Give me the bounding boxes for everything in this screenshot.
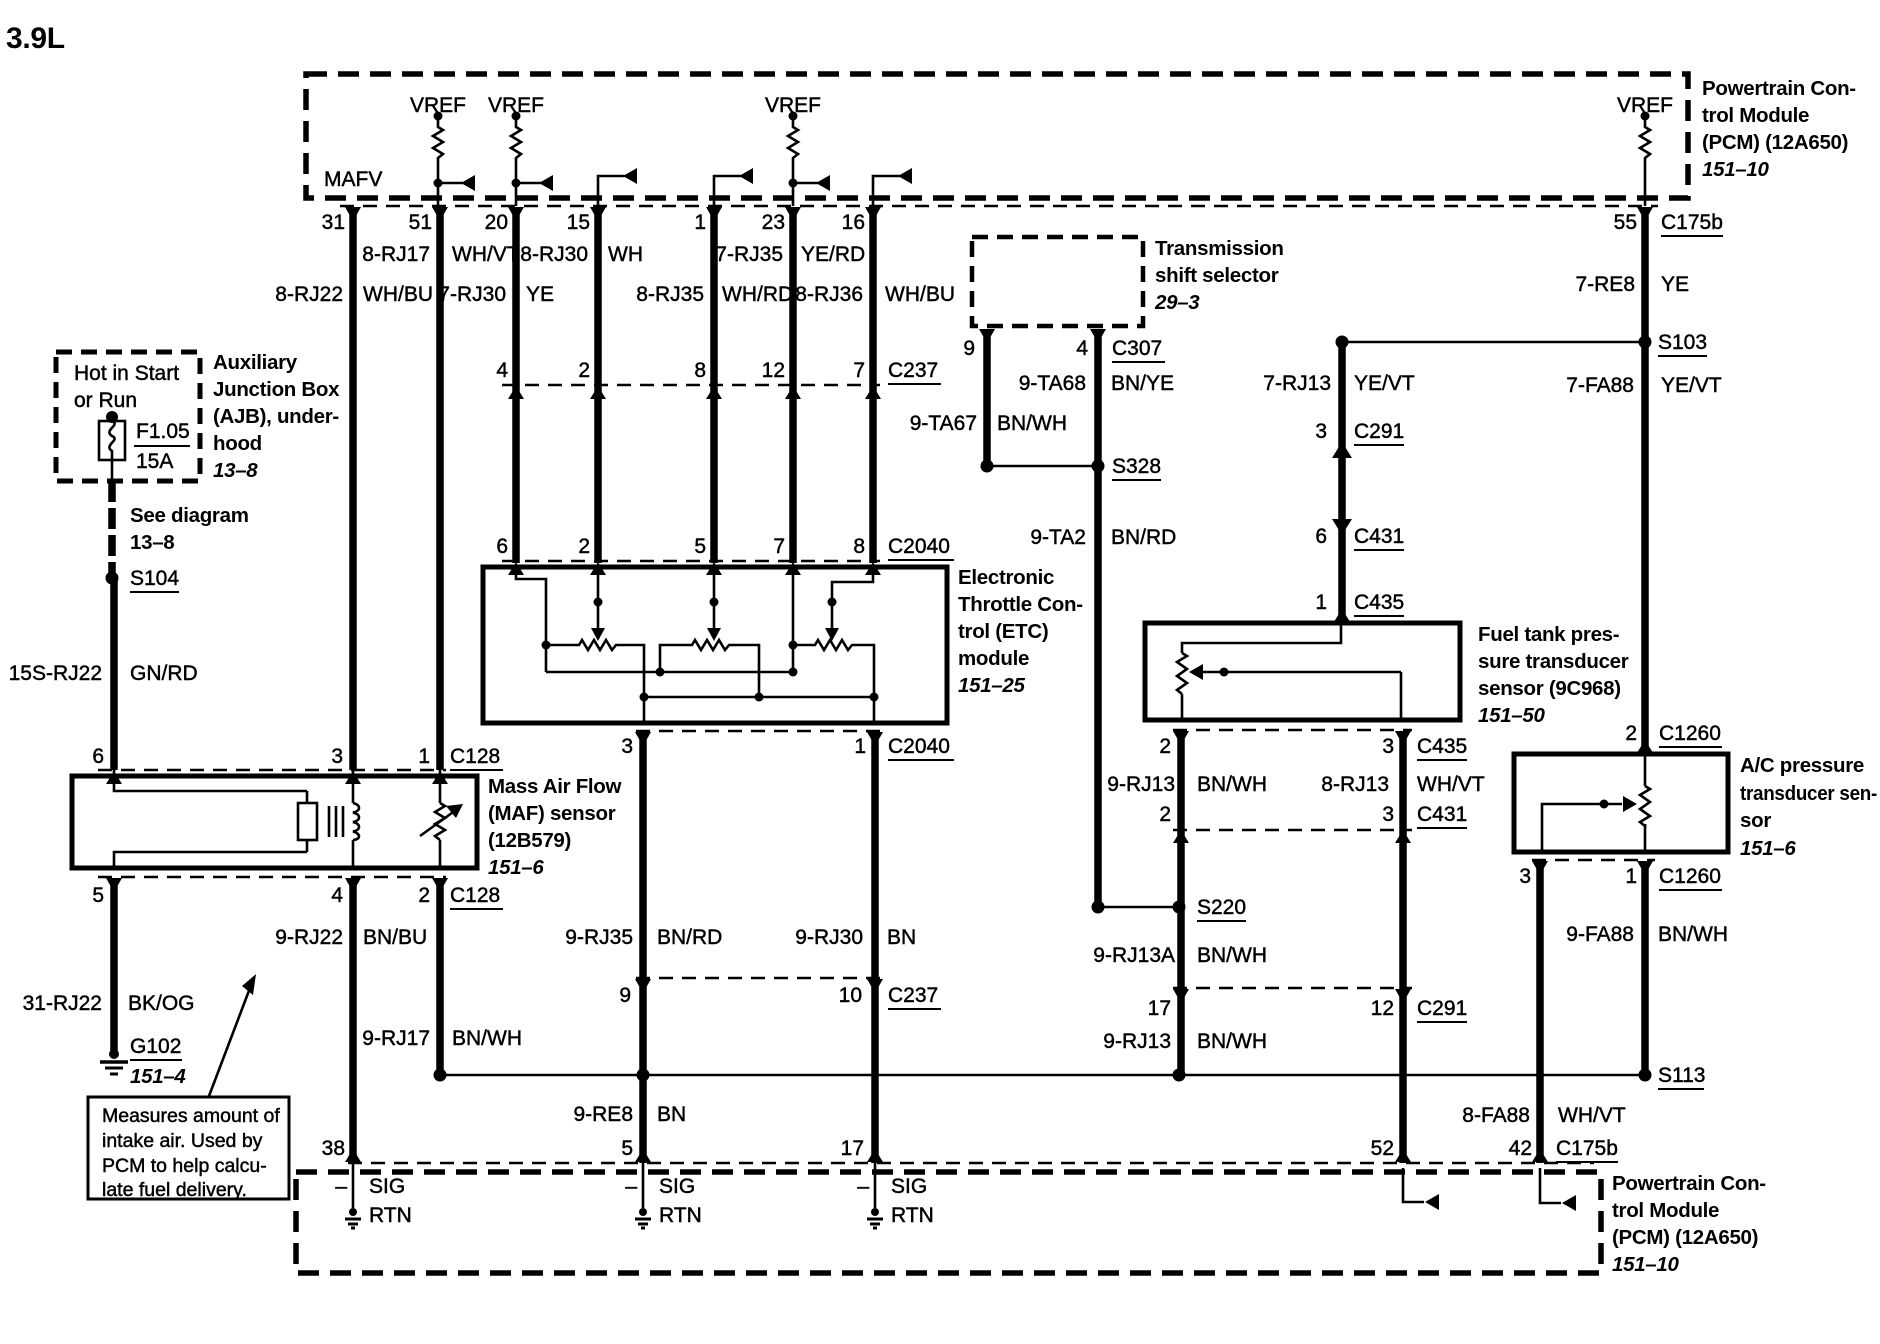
connector C2040 dashed line (lower) <box>636 730 884 733</box>
svg-text:WH/BU: WH/BU <box>885 283 955 306</box>
splice bus wire to S113 <box>434 1069 1646 1082</box>
svg-text:1: 1 <box>1625 865 1637 888</box>
svg-text:YE: YE <box>526 283 554 306</box>
svg-text:9-TA67: 9-TA67 <box>910 412 977 435</box>
C237 upper pin numbers <box>496 359 865 382</box>
connector label C431 <box>1417 803 1467 828</box>
C128 upper pin numbers <box>92 745 430 768</box>
svg-text:3: 3 <box>1519 865 1531 888</box>
svg-text:C1260: C1260 <box>1659 865 1721 888</box>
svg-text:1: 1 <box>694 211 706 234</box>
svg-text:C2040: C2040 <box>888 535 950 558</box>
svg-text:–: – <box>625 1175 637 1198</box>
connector label C128 lower <box>450 884 503 909</box>
connector label C175b <box>1661 211 1723 236</box>
wire 9-TA67 BN/WH (shift selector 9 to S328) <box>983 330 991 466</box>
svg-text:Auxiliary: Auxiliary <box>213 351 298 374</box>
wire label 7-FA88 YE/VT <box>1566 374 1722 397</box>
connector arrowheads down at C2040 lower <box>635 732 883 746</box>
svg-text:Powertrain Con-: Powertrain Con- <box>1612 1172 1766 1195</box>
svg-text:BN/WH: BN/WH <box>1197 944 1267 967</box>
potentiometer R2 (TP2) <box>660 640 759 697</box>
A/C sensor name text <box>1740 754 1877 860</box>
svg-text:7-RJ35: 7-RJ35 <box>715 243 783 266</box>
svg-text:7-FA88: 7-FA88 <box>1566 374 1634 397</box>
PCM internal arrow on pin 16 wire <box>873 168 912 206</box>
svg-text:10: 10 <box>839 984 862 1007</box>
wire label 9-TA2 BN/RD <box>1030 526 1176 549</box>
connector arrowhead down at wire 55 <box>1637 207 1653 221</box>
svg-text:BN: BN <box>887 926 916 949</box>
svg-text:15A: 15A <box>136 450 173 473</box>
svg-text:RTN: RTN <box>891 1204 934 1227</box>
svg-text:BN/YE: BN/YE <box>1111 372 1174 395</box>
svg-text:151–25: 151–25 <box>958 674 1026 697</box>
wire 8-RJ22 WH/BU (PCM 31 to MAF 3) <box>349 208 357 770</box>
wire 7-FA88 YE/VT (S103 to A/C 2) <box>1641 342 1649 754</box>
connector arrowheads down at C435 <box>1173 731 1411 745</box>
VREF pull-up resistor R-vref2 <box>511 112 521 207</box>
connector label C237 lower <box>888 984 941 1009</box>
svg-text:PCM to help calcu-: PCM to help calcu- <box>102 1155 267 1177</box>
wire label 9-TA67 BN/WH <box>910 412 1067 435</box>
svg-text:MAFV: MAFV <box>324 168 382 191</box>
svg-text:16: 16 <box>842 211 865 234</box>
connector arrowhead down at wire 23 <box>785 207 801 221</box>
svg-text:WH/BU: WH/BU <box>363 283 433 306</box>
svg-text:S103: S103 <box>1658 331 1707 354</box>
svg-text:3: 3 <box>1382 803 1394 826</box>
svg-text:4: 4 <box>496 359 508 382</box>
connector C291 dashed line <box>1173 987 1412 990</box>
MAF sensor name text <box>488 775 622 879</box>
svg-text:151–4: 151–4 <box>130 1065 186 1088</box>
svg-text:(MAF) sensor: (MAF) sensor <box>488 802 616 825</box>
fuel sensor internal wire to pin 2 <box>1181 694 1184 720</box>
svg-text:shift selector: shift selector <box>1155 264 1279 287</box>
svg-text:9: 9 <box>619 984 631 1007</box>
C237 lower pin numbers <box>619 984 862 1007</box>
AJB caption Hot in Start or Run <box>74 362 179 412</box>
C435 pin numbers <box>1159 735 1394 758</box>
svg-text:SIG: SIG <box>891 1175 927 1198</box>
svg-text:C237: C237 <box>888 984 938 1007</box>
ETC internal wire from pin 7 <box>789 567 798 672</box>
connector C175b dashed line (top) <box>340 205 1658 208</box>
svg-text:8-RJ35: 8-RJ35 <box>636 283 704 306</box>
svg-text:13–8: 13–8 <box>130 531 174 554</box>
wire 9-RJ35 BN/RD (ETC 3 to C237 9) <box>639 733 647 978</box>
svg-text:C431: C431 <box>1417 803 1467 826</box>
svg-text:C1260: C1260 <box>1659 722 1721 745</box>
svg-text:31: 31 <box>322 211 345 234</box>
connector arrowhead down at wire 51 <box>432 207 448 221</box>
fuel sensor internal wire from pin 1 <box>1182 623 1341 653</box>
connector C128 dashed line (lower) <box>98 876 446 879</box>
svg-text:3.9L: 3.9L <box>6 22 65 55</box>
fuel tank sensor name text <box>1478 623 1629 727</box>
A/C sensor wiper arrow <box>1542 796 1637 852</box>
Transmission shift selector box (dashed) <box>972 237 1143 326</box>
svg-text:C435: C435 <box>1417 735 1467 758</box>
wire 9-RJ13 BN/WH (C291 17 to S113 bus) <box>1177 988 1185 1075</box>
svg-text:8: 8 <box>694 359 706 382</box>
PCM internal arrow pin 42 <box>1540 1168 1576 1211</box>
svg-text:3: 3 <box>1315 420 1327 443</box>
wire 9-RE8 BN (C237 9 to PCM 5) <box>639 978 647 1163</box>
connector C237 dashed line (upper) <box>502 384 880 387</box>
svg-text:6: 6 <box>1315 525 1327 548</box>
connector arrowheads up at C2040 upper <box>508 562 881 575</box>
svg-text:9-FA88: 9-FA88 <box>1566 923 1634 946</box>
connector arrowhead down at wire 20 <box>508 207 524 221</box>
wire labels 9-RJ35 BN/RD and 9-RJ30 BN <box>565 926 916 949</box>
svg-text:7: 7 <box>773 535 785 558</box>
svg-text:WH/RD: WH/RD <box>722 283 793 306</box>
svg-text:BN/WH: BN/WH <box>1658 923 1728 946</box>
svg-text:7-RJ30: 7-RJ30 <box>438 283 506 306</box>
svg-text:trol Module: trol Module <box>1612 1199 1719 1222</box>
svg-text:Fuel tank pres-: Fuel tank pres- <box>1478 623 1619 646</box>
wire label 9-RJ22 BN/BU <box>275 926 427 949</box>
C307 pin numbers <box>963 337 1088 360</box>
wire 8-RJ17 WH/VT (PCM 51 to MAF 1) <box>436 208 444 770</box>
svg-text:31-RJ22: 31-RJ22 <box>23 992 102 1015</box>
svg-text:C435: C435 <box>1354 591 1404 614</box>
svg-text:8-FA88: 8-FA88 <box>1462 1104 1530 1127</box>
C2040 lower pin numbers <box>621 735 866 758</box>
wire 7-RJ35 WH/RD (PCM 23 to ETC 7) <box>789 208 797 563</box>
connector arrowheads up at C128 upper <box>106 771 448 784</box>
connector arrowheads down at C291 <box>1173 989 1411 1003</box>
svg-text:5: 5 <box>621 1137 633 1160</box>
C128 lower pin numbers <box>92 884 430 907</box>
fuse label F1.05 15A <box>134 420 190 473</box>
svg-text:BN/WH: BN/WH <box>1197 1030 1267 1053</box>
ETC internal wire from pin 5 (R2 wiper) <box>707 567 721 641</box>
connector label C128 upper <box>450 745 503 770</box>
wire label 31-RJ22 BK/OG <box>23 992 195 1015</box>
svg-text:151–10: 151–10 <box>1702 158 1770 181</box>
connector C1260 dashed line <box>1532 859 1655 862</box>
svg-text:BN/WH: BN/WH <box>1197 773 1267 796</box>
svg-text:23: 23 <box>762 211 785 234</box>
connector label C2040 upper <box>888 535 954 560</box>
svg-text:8-RJ22: 8-RJ22 <box>275 283 343 306</box>
pin numbers on C175b row <box>322 211 1637 234</box>
svg-text:Mass Air Flow: Mass Air Flow <box>488 775 622 798</box>
Auxiliary Junction Box (dashed) <box>56 352 200 481</box>
svg-text:8-RJ36: 8-RJ36 <box>795 283 863 306</box>
AJB name text <box>213 351 340 482</box>
svg-text:BN/WH: BN/WH <box>452 1027 522 1050</box>
svg-text:YE: YE <box>1661 273 1689 296</box>
svg-text:151–6: 151–6 <box>488 856 544 879</box>
wire 7-RJ13 YE/VT (S103 to fuel sensor 1) <box>1338 342 1346 618</box>
svg-text:29–3: 29–3 <box>1154 291 1200 314</box>
svg-text:C307: C307 <box>1112 337 1162 360</box>
svg-text:BN/RD: BN/RD <box>657 926 722 949</box>
PCM bottom pin numbers <box>322 1137 1532 1160</box>
svg-text:6: 6 <box>92 745 104 768</box>
svg-text:52: 52 <box>1371 1137 1394 1160</box>
connector label C435 <box>1417 735 1467 760</box>
wire 9-RJ13 BN/WH (fuel 2 to S220) <box>1177 733 1185 907</box>
PCM SIG RTN pin 38 <box>335 1163 411 1228</box>
svg-text:2: 2 <box>1159 803 1171 826</box>
svg-text:9-RJ17: 9-RJ17 <box>362 1027 430 1050</box>
wire 8-RJ30 WH (PCM 15 to ETC 2) <box>594 208 602 563</box>
connector C128 dashed line (upper) <box>98 769 446 772</box>
splice S113 <box>1639 1064 1706 1089</box>
wire label 9-FA88 BN/WH <box>1566 923 1728 946</box>
svg-text:8-RJ17: 8-RJ17 <box>362 243 430 266</box>
svg-text:7: 7 <box>853 359 865 382</box>
svg-text:8: 8 <box>853 535 865 558</box>
svg-text:3: 3 <box>621 735 633 758</box>
svg-text:C128: C128 <box>450 745 500 768</box>
wire label 8-FA88 WH/VT <box>1462 1104 1626 1127</box>
ETC internal wire from pin 2 (R1 wiper) <box>591 567 605 641</box>
svg-text:transducer sen-: transducer sen- <box>1740 782 1877 805</box>
svg-text:2: 2 <box>418 884 430 907</box>
connector label C307 <box>1112 337 1165 362</box>
svg-text:BN: BN <box>657 1103 686 1126</box>
C1260 pin numbers <box>1519 865 1637 888</box>
A/C pressure transducer sensor box <box>1514 754 1728 852</box>
wire 7-RJ30 YE (PCM 20 to ETC 6) <box>512 208 520 563</box>
wire 8-RJ13 WH/VT (fuel 3 to C291 12) <box>1399 733 1407 988</box>
connector C431 dashed line <box>1173 829 1412 832</box>
svg-text:9-TA68: 9-TA68 <box>1019 372 1086 395</box>
svg-text:Electronic: Electronic <box>958 566 1054 589</box>
svg-text:sensor (9C968): sensor (9C968) <box>1478 677 1621 700</box>
svg-text:Hot in Start: Hot in Start <box>74 362 179 385</box>
svg-text:sor: sor <box>1740 809 1771 832</box>
Powertrain Control Module top box (dashed) <box>306 74 1688 198</box>
svg-text:C291: C291 <box>1417 997 1467 1020</box>
PCM internal arrow on pin 1 wire <box>714 168 753 206</box>
svg-text:7-RE8: 7-RE8 <box>1575 273 1635 296</box>
svg-text:or Run: or Run <box>74 389 137 412</box>
wire BN (C237 10 to PCM 17) <box>871 978 879 1163</box>
fuel sensor wiper arrow <box>1189 664 1401 720</box>
MAF internal hot-wire element loop <box>114 770 298 868</box>
svg-text:15: 15 <box>567 211 590 234</box>
svg-text:2: 2 <box>1159 735 1171 758</box>
wire label 15S-RJ22 GN/RD <box>9 662 198 685</box>
wire label 9-TA68 BN/YE <box>1019 372 1174 395</box>
svg-text:Transmission: Transmission <box>1155 237 1284 260</box>
wire 31-RJ22 BK/OG (MAF 5 to G102) <box>110 879 118 1052</box>
svg-text:9-RJ22: 9-RJ22 <box>275 926 343 949</box>
svg-text:S220: S220 <box>1197 896 1246 919</box>
svg-text:151–10: 151–10 <box>1612 1253 1680 1276</box>
svg-text:1: 1 <box>854 735 866 758</box>
svg-text:1: 1 <box>1315 591 1327 614</box>
svg-text:9-RE8: 9-RE8 <box>573 1103 633 1126</box>
svg-text:S104: S104 <box>130 567 179 590</box>
inline connector C435 pin 1 <box>1315 591 1404 625</box>
svg-text:C431: C431 <box>1354 525 1404 548</box>
svg-text:BN/BU: BN/BU <box>363 926 427 949</box>
svg-text:sure transducer: sure transducer <box>1478 650 1629 673</box>
svg-text:C175b: C175b <box>1556 1137 1618 1160</box>
svg-text:20: 20 <box>485 211 508 234</box>
svg-text:6: 6 <box>496 535 508 558</box>
inline connector C291 pin 3 <box>1315 420 1404 458</box>
svg-text:3: 3 <box>331 745 343 768</box>
svg-text:(PCM) (12A650): (PCM) (12A650) <box>1612 1226 1758 1249</box>
svg-text:3: 3 <box>1382 735 1394 758</box>
connector arrowheads down at C307 <box>979 329 1106 343</box>
wire 15S-RJ22 GN/RD (S104 to MAF 6) <box>110 578 118 770</box>
wire 9-RJ13A BN/WH (S220 to C291 17) <box>1177 907 1185 988</box>
A/C sensor resistor <box>1640 754 1650 852</box>
C2040 upper pin numbers <box>496 535 865 558</box>
wire 9-RJ30 BN (ETC 1 to C237 10) <box>871 733 879 978</box>
wire WH/VT (C291 12 to PCM 52) <box>1399 988 1407 1163</box>
svg-text:8-RJ30: 8-RJ30 <box>520 243 588 266</box>
svg-text:See diagram: See diagram <box>130 504 249 527</box>
svg-text:9-RJ35: 9-RJ35 <box>565 926 633 949</box>
ETC internal exit wires to pins 3 and 1 <box>644 697 874 723</box>
wire 9-RJ17 BN/WH (MAF 2 to S113 bus) <box>436 879 444 1075</box>
svg-text:SIG: SIG <box>659 1175 695 1198</box>
wire label 7-RE8 YE <box>1575 273 1689 296</box>
svg-text:S328: S328 <box>1112 455 1161 478</box>
svg-text:trol (ETC): trol (ETC) <box>958 620 1048 643</box>
svg-text:9-RJ30: 9-RJ30 <box>795 926 863 949</box>
Electronic Throttle Control module box <box>483 567 947 723</box>
svg-text:module: module <box>958 647 1029 670</box>
connector C237 dashed line (lower) <box>636 977 884 980</box>
connector arrowheads up at C237 upper <box>508 386 881 399</box>
PCM internal arrow pin 52 <box>1403 1168 1439 1210</box>
svg-text:9-RJ13: 9-RJ13 <box>1107 773 1175 796</box>
PCM internal arrow on pin 15 wire <box>598 168 637 206</box>
svg-text:5: 5 <box>694 535 706 558</box>
svg-text:9-TA2: 9-TA2 <box>1030 526 1086 549</box>
svg-text:12: 12 <box>1371 997 1394 1020</box>
Transmission shift selector name text <box>1154 237 1284 314</box>
svg-text:(12B579): (12B579) <box>488 829 571 852</box>
svg-text:WH/VT: WH/VT <box>1417 773 1485 796</box>
svg-text:15S-RJ22: 15S-RJ22 <box>9 662 102 685</box>
wire labels row 2 <box>275 283 955 306</box>
svg-text:WH/VT: WH/VT <box>452 243 520 266</box>
svg-text:51: 51 <box>409 211 432 234</box>
wire labels 9-RJ13 BN/WH and 8-RJ13 WH/VT <box>1107 773 1485 796</box>
svg-text:8-RJ13: 8-RJ13 <box>1321 773 1389 796</box>
connector arrowheads up at PCM bottom <box>345 1149 1548 1162</box>
svg-text:12: 12 <box>762 359 785 382</box>
svg-text:BK/OG: BK/OG <box>128 992 195 1015</box>
connector label C2040 lower <box>888 735 954 760</box>
svg-text:A/C pressure: A/C pressure <box>1740 754 1864 777</box>
svg-text:55: 55 <box>1614 211 1637 234</box>
svg-text:–: – <box>857 1175 869 1198</box>
connector arrowheads down at C1260 <box>1532 861 1653 875</box>
connector line at PCM bottom (thin dashed) <box>348 1162 1594 1165</box>
svg-text:C2040: C2040 <box>888 735 950 758</box>
potentiometer R1 (TP1) <box>546 640 644 697</box>
svg-text:Junction Box: Junction Box <box>213 378 340 401</box>
svg-text:17: 17 <box>1148 997 1171 1020</box>
connector arrowheads down at C128 lower <box>106 878 448 892</box>
connector arrowheads down at C237 lower <box>635 979 883 993</box>
svg-text:13–8: 13–8 <box>213 459 258 482</box>
svg-text:WH: WH <box>608 243 643 266</box>
svg-text:GN/RD: GN/RD <box>130 662 198 685</box>
ETC internal wire from pin 8 (R3 wiper) <box>825 567 873 641</box>
svg-text:YE/RD: YE/RD <box>801 243 865 266</box>
fuel sensor resistor <box>1177 653 1187 694</box>
svg-text:4: 4 <box>1076 337 1088 360</box>
svg-text:Throttle Con-: Throttle Con- <box>958 593 1083 616</box>
svg-text:–: – <box>335 1175 347 1198</box>
svg-text:7-RJ13: 7-RJ13 <box>1263 372 1331 395</box>
splice S328 <box>981 455 1162 480</box>
svg-text:S113: S113 <box>1658 1064 1706 1087</box>
wire 9-TA68 BN/YE (shift selector 4 to S328) <box>1094 330 1102 466</box>
svg-text:Powertrain Con-: Powertrain Con- <box>1702 77 1856 100</box>
wire label 9-RJ17 BN/WH <box>362 1027 522 1050</box>
splice S103 <box>1639 331 1708 356</box>
VREF pull-up resistor R-vref3 <box>788 112 798 207</box>
svg-text:C237: C237 <box>888 359 938 382</box>
PCM internal arrow on pin 23 wire <box>789 175 831 191</box>
wire label 9-RE8 BN <box>573 1103 686 1126</box>
svg-text:17: 17 <box>841 1137 864 1160</box>
PCM name text (top right) <box>1702 77 1856 181</box>
svg-text:38: 38 <box>322 1137 345 1160</box>
connector C2040 dashed line (upper) <box>502 560 880 563</box>
svg-text:trol Module: trol Module <box>1702 104 1809 127</box>
PCM internal arrow on pin 51 wire <box>434 175 476 191</box>
svg-text:4: 4 <box>331 884 343 907</box>
MAF variable resistor on pin 1/2 wire <box>420 770 463 868</box>
svg-text:RTN: RTN <box>659 1204 702 1227</box>
wire label 9-RJ13A BN/WH <box>1093 944 1267 967</box>
PCM bottom name text <box>1612 1172 1766 1276</box>
Fuel tank pressure transducer sensor box <box>1145 623 1460 720</box>
note box Measures amount of intake air <box>88 1097 289 1201</box>
wire 8-RJ35 WH/RD (PCM 1 to ETC 5) <box>710 208 718 563</box>
ETC internal bus y672 <box>546 668 798 677</box>
svg-text:5: 5 <box>92 884 104 907</box>
note arrow to MAF <box>209 974 256 1096</box>
svg-text:WH/VT: WH/VT <box>1558 1104 1626 1127</box>
svg-text:9-RJ13: 9-RJ13 <box>1103 1030 1171 1053</box>
connector label C291 <box>1417 997 1467 1022</box>
wire 8-FA88 WH/VT (A/C 3 to PCM 42) <box>1536 863 1544 1163</box>
svg-text:2: 2 <box>578 535 590 558</box>
svg-text:2: 2 <box>578 359 590 382</box>
svg-text:C128: C128 <box>450 884 500 907</box>
VREF pull-up resistor R-vref4 <box>1640 112 1650 207</box>
splice S104 <box>106 567 180 592</box>
svg-text:(PCM) (12A650): (PCM) (12A650) <box>1702 131 1848 154</box>
connector label C237 upper <box>888 359 941 384</box>
svg-text:RTN: RTN <box>369 1204 412 1227</box>
PCM SIG RTN pin 5 <box>625 1163 701 1228</box>
svg-text:9-RJ13A: 9-RJ13A <box>1093 944 1175 967</box>
wire 9-RJ22 BN/BU (MAF 4 to PCM 38) <box>349 879 357 1163</box>
wire 9-TA2 BN/RD (S328 to S220) <box>1094 466 1102 907</box>
svg-text:C291: C291 <box>1354 420 1404 443</box>
wire label 7-RJ13 YE/VT <box>1263 372 1415 395</box>
